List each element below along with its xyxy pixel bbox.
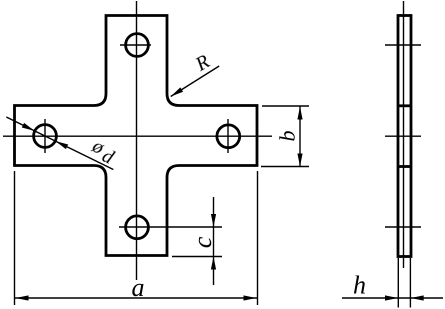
extension line right for h bbox=[409, 258, 411, 308]
arrowhead Od lower-right bbox=[55, 141, 68, 149]
arrow c top (outside, pointing down) bbox=[211, 214, 216, 227]
dimension line h bbox=[342, 297, 443, 299]
arrow a left bbox=[16, 295, 29, 300]
arrow h left (outside, pointing right) bbox=[385, 295, 398, 300]
hole left bbox=[34, 125, 57, 148]
arrowhead of R leader bbox=[171, 87, 183, 96]
extension line bottom for b bbox=[261, 166, 309, 168]
svg-text:a: a bbox=[132, 273, 145, 302]
dimension line a bbox=[15, 297, 257, 299]
vertical centerline of front view bbox=[136, 1, 138, 280]
centerline tick of bottom hole extending right as extension line for c bbox=[119, 226, 222, 228]
arrow b top bbox=[297, 107, 302, 120]
dimension line c bbox=[213, 197, 215, 285]
centerline tick of left hole bbox=[44, 119, 46, 153]
dimension line b bbox=[299, 107, 301, 167]
svg-text:h: h bbox=[353, 271, 366, 300]
leader line for Od through left hole bbox=[6, 117, 113, 170]
arrow h right (outside, pointing left) bbox=[411, 295, 424, 300]
hole bottom bbox=[126, 216, 149, 239]
arrow b bottom bbox=[297, 154, 302, 167]
hole right bbox=[217, 125, 240, 148]
svg-text:c: c bbox=[188, 236, 217, 248]
side view plate rectangle bbox=[398, 16, 411, 257]
centerline tick of top hole bbox=[120, 44, 151, 46]
svg-text:b: b bbox=[275, 131, 300, 142]
arrowhead Od upper-left bbox=[22, 123, 35, 131]
hole top bbox=[126, 34, 149, 57]
arrow a right bbox=[244, 295, 257, 300]
side view hole centerline top bbox=[385, 44, 421, 46]
side view edge line lower bbox=[398, 165, 411, 168]
leader line for R bbox=[171, 66, 220, 97]
arrow c bottom (outside, pointing up) bbox=[211, 257, 216, 270]
centerline tick of right hole bbox=[227, 119, 229, 153]
side view hole centerline bottom bbox=[385, 226, 421, 228]
extension line left for h bbox=[397, 258, 399, 308]
side view hole centerline middle bbox=[385, 135, 421, 137]
cross plate outline bbox=[15, 16, 258, 256]
extension line left for a bbox=[14, 171, 16, 305]
extension line top for b bbox=[262, 105, 309, 107]
side view edge line upper bbox=[398, 104, 411, 107]
extension line right for a bbox=[257, 171, 259, 305]
horizontal centerline of front view bbox=[3, 135, 272, 137]
side view vertical centerline bbox=[403, 1, 405, 268]
extension line for c bottom (from plate bottom edge) bbox=[172, 256, 222, 258]
